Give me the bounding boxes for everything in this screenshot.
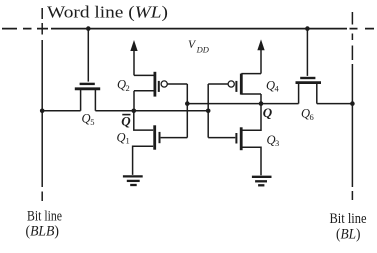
power VDD arrow left xyxy=(131,41,137,75)
node: Q (right inverter output) xyxy=(259,101,264,106)
node: WL to Q6 gate junction xyxy=(305,26,310,31)
power VDD arrow right xyxy=(258,41,264,74)
svg-text:Q: Q xyxy=(117,130,126,144)
svg-text:Word line (WL): Word line (WL) xyxy=(47,3,168,22)
wire: Q-bar rail (BLB junction to Q5 source, Q5 drain to right gate bus) y=110.8 xyxy=(42,110,208,112)
svg-text:1: 1 xyxy=(126,136,130,146)
svg-text:3: 3 xyxy=(275,138,279,148)
wire: right inverter gate bus (gate of Q4/Q3) x=208.2 xyxy=(207,84,209,138)
ground symbol left xyxy=(123,176,143,185)
wire: word line WL horizontal (dash-dot left, solid middle, dashed right) xyxy=(2,28,374,30)
svg-text:2: 2 xyxy=(126,83,130,93)
wire: Q rail (left gate bus to Q6 source, Q6 drain to BL junction) y=103.6 xyxy=(187,103,352,105)
svg-text:DD: DD xyxy=(196,44,210,54)
svg-text:4: 4 xyxy=(275,84,280,94)
svg-text:5: 5 xyxy=(90,117,94,127)
svg-text:6: 6 xyxy=(310,112,314,122)
node: BLB junction xyxy=(40,109,45,114)
transistor Q3 (NMOS pull-down, right): drain leg, channel bar, gate bar, gate lead, source leg xyxy=(208,104,261,176)
svg-text:(BLB): (BLB) xyxy=(26,224,60,240)
node: right gate bus to Q-bar rail junction xyxy=(206,109,211,114)
wire: Q4 drain down to node Q xyxy=(260,94,262,104)
node: WL to Q5 gate junction xyxy=(86,26,91,31)
svg-text:Q: Q xyxy=(121,113,131,128)
svg-text:Bit line: Bit line xyxy=(27,208,62,224)
label: node Q-bar (bold with overline) xyxy=(121,113,131,128)
transistor Q1 (NMOS pull-down, left): drain leg, channel bar, gate bar, gate lead, source leg xyxy=(133,111,188,175)
transistor Q2 (PMOS pull-up, left): source leg to VDD, channel bar, gate bar, bubble, gate lead, drain leg xyxy=(134,72,187,97)
node: BL junction xyxy=(350,101,355,106)
transistor Q4 (PMOS pull-up, right): gate lead, bubble, gate bar, channel bar, source leg to VDD, drain leg xyxy=(208,74,261,95)
bit line BL vertical (x=352, dashed top, solid middle, dashed bottom) xyxy=(351,12,353,200)
bit line BLB vertical (x=42, dashed top and bottom, solid middle) xyxy=(41,8,43,201)
ground symbol right xyxy=(252,177,272,186)
transistor Q5 (NMOS access, left): gate lead, gate bar, channel bar, source/drain legs xyxy=(75,29,100,111)
transistor Q6 (NMOS access, right): gate lead, gate bar, channel bar, source/drain legs xyxy=(296,29,322,104)
svg-text:Q: Q xyxy=(82,112,91,126)
svg-text:Bit line: Bit line xyxy=(330,211,367,227)
node: left gate bus to Q rail junction xyxy=(185,101,190,106)
svg-text:Q: Q xyxy=(263,105,273,120)
wire: Q2 drain down to node Q-bar xyxy=(133,91,135,111)
svg-text:(BL): (BL) xyxy=(336,226,361,242)
wire: left inverter gate bus (gate of Q2/Q1 down to cross-couple) x=187.3 xyxy=(186,84,188,138)
node: Q-bar (left inverter output) xyxy=(132,109,137,114)
